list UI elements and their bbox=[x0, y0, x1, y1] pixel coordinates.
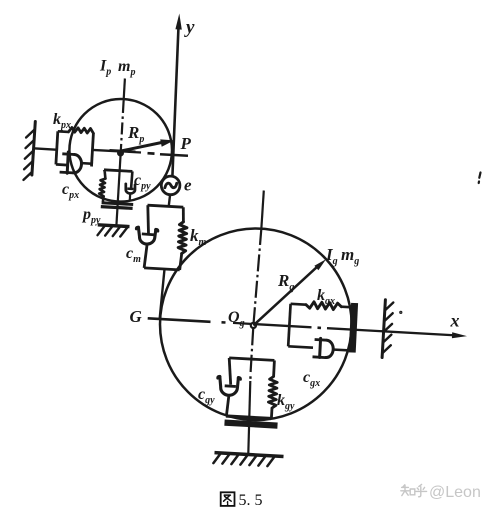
pinion center cross bbox=[110, 150, 136, 152]
caption 图 5.5 bbox=[221, 492, 235, 506]
frame ppy/cpy bbox=[104, 170, 132, 172]
frame kgy/cgy bbox=[229, 358, 274, 361]
spring km bbox=[182, 207, 185, 222]
damper cpx bbox=[62, 152, 74, 155]
excitation source e bbox=[161, 176, 180, 195]
frame kgx/cgx bbox=[291, 302, 306, 306]
damper cpy bbox=[131, 171, 132, 188]
pinion circle (mass Ip) bbox=[69, 99, 172, 202]
svg-text:x: x bbox=[450, 311, 460, 331]
radius arrow Rp bbox=[121, 142, 164, 151]
svg-text:e: e bbox=[184, 176, 192, 195]
damper cgx bbox=[315, 338, 327, 342]
svg-text:Og: Og bbox=[228, 309, 245, 329]
svg-text:Rp: Rp bbox=[127, 123, 144, 145]
svg-text:ppy: ppy bbox=[81, 206, 101, 226]
wall left bbox=[32, 122, 35, 176]
ground gear support bbox=[215, 453, 284, 457]
ground pinion support bbox=[98, 225, 130, 227]
svg-text:P: P bbox=[180, 134, 192, 153]
svg-text:cpy: cpy bbox=[134, 172, 151, 192]
wire mesh to gear at G bbox=[160, 269, 165, 319]
wire kpx box to pinion center bbox=[93, 150, 121, 152]
node Og bbox=[251, 323, 256, 328]
svg-text:@Leon: @Leon bbox=[429, 484, 481, 501]
svg-text:kpx: kpx bbox=[53, 111, 71, 131]
spring kgx bbox=[306, 302, 341, 310]
wire wall to kpx box bbox=[33, 148, 58, 150]
wire e to mesh frame bbox=[169, 195, 170, 207]
svg-text:kgy: kgy bbox=[277, 392, 295, 412]
y-axis bbox=[172, 24, 178, 176]
svg-text:mg: mg bbox=[341, 245, 359, 267]
anchor plate gx bbox=[352, 303, 354, 353]
frame kpx/cpx bbox=[58, 130, 69, 133]
spring kpx bbox=[69, 128, 94, 134]
svg-text:Ip: Ip bbox=[99, 58, 111, 78]
watermark zhihu @Leon bbox=[401, 484, 427, 496]
svg-text:cm: cm bbox=[126, 245, 141, 265]
svg-text:mp: mp bbox=[118, 58, 135, 78]
svg-text:5. 5: 5. 5 bbox=[239, 492, 263, 509]
damper cgy bbox=[229, 358, 231, 385]
scan speck near wall bbox=[400, 311, 402, 313]
spring kgy bbox=[272, 360, 276, 376]
svg-text:y: y bbox=[184, 17, 195, 38]
svg-text:Rg: Rg bbox=[277, 271, 294, 293]
radius arrow Rg bbox=[253, 266, 318, 326]
spring ppy bbox=[103, 171, 106, 178]
svg-text:cpx: cpx bbox=[62, 181, 79, 201]
base bars gy bbox=[226, 416, 271, 419]
gear center line bbox=[261, 191, 263, 229]
base bars ppy bbox=[102, 203, 134, 205]
svg-text:G: G bbox=[130, 307, 143, 326]
scan speck right edge bbox=[479, 173, 481, 184]
x-axis bbox=[148, 318, 211, 322]
wall right bbox=[382, 300, 385, 358]
frame km/cm bbox=[148, 205, 184, 207]
gear circle (mass Ig) bbox=[160, 228, 352, 420]
svg-text:cgx: cgx bbox=[303, 369, 320, 389]
pinion center line bbox=[124, 79, 125, 102]
damper cm bbox=[146, 205, 149, 234]
pitch center line through P bbox=[121, 151, 141, 152]
svg-text:Ig: Ig bbox=[325, 245, 338, 267]
